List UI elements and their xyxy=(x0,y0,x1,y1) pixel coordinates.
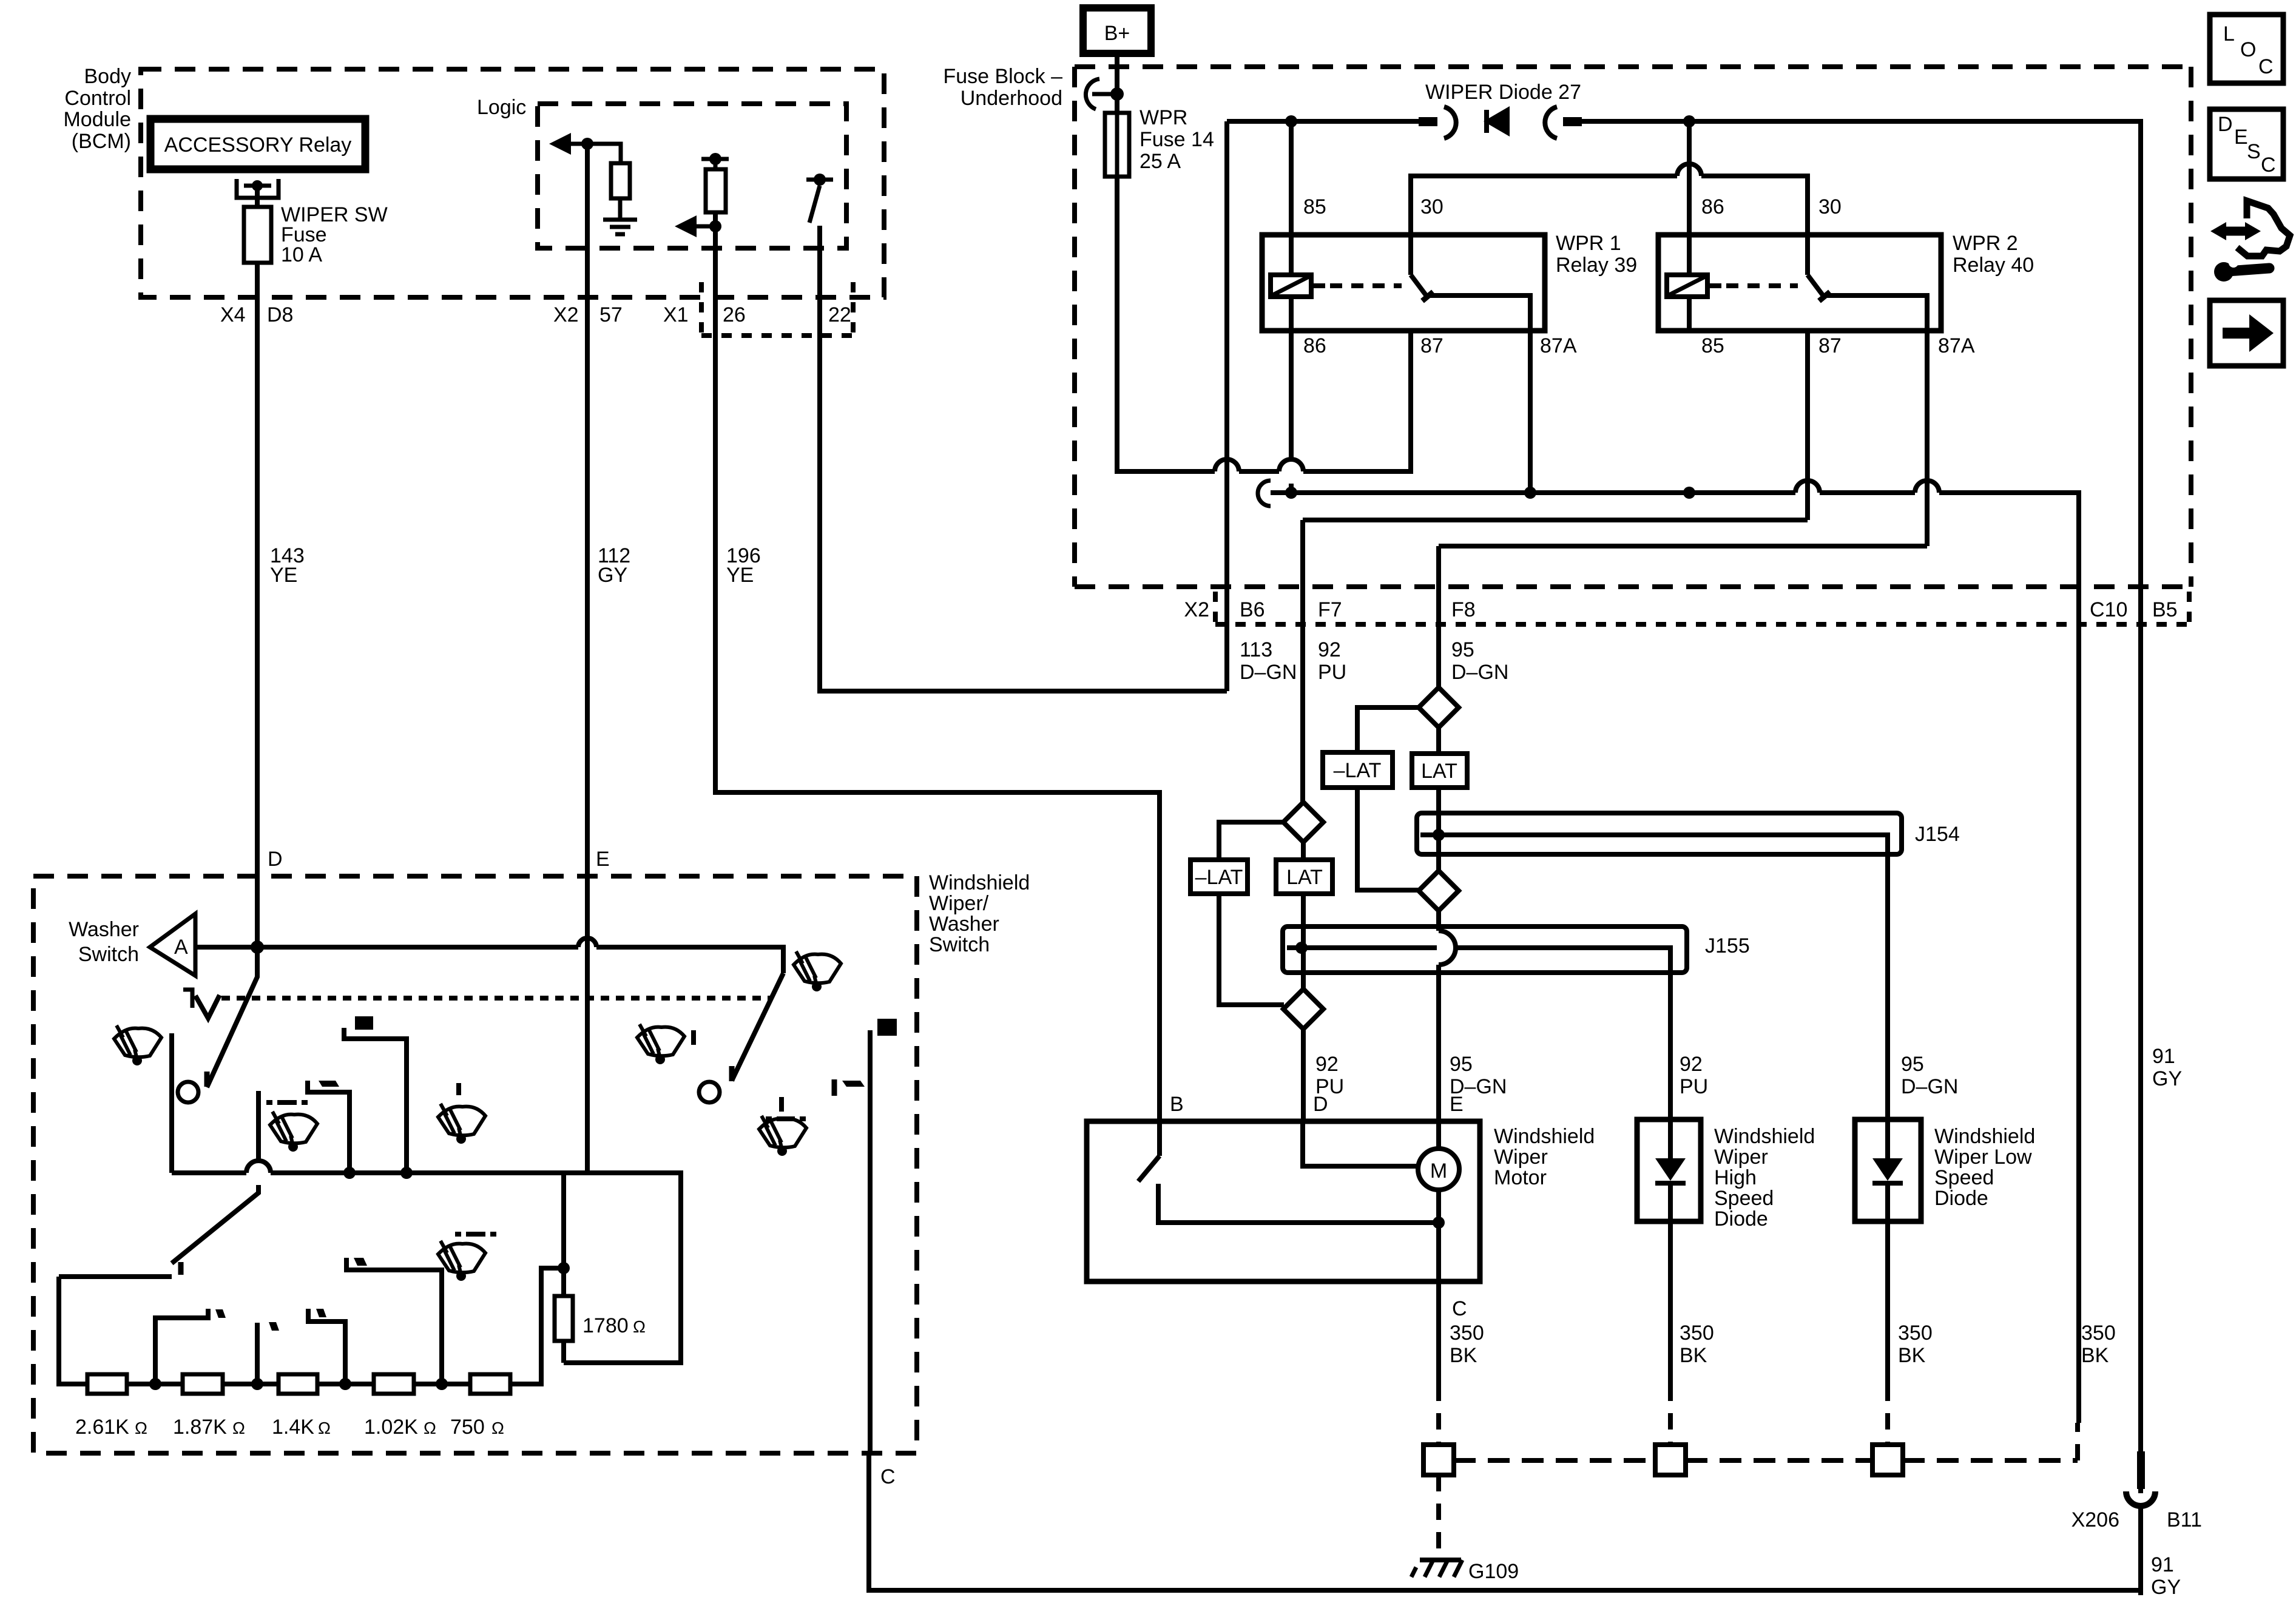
svg-text:PU: PU xyxy=(1318,661,1346,684)
svg-text:C: C xyxy=(880,1465,896,1488)
svg-text:30: 30 xyxy=(1818,195,1842,218)
svg-text:G109: G109 xyxy=(1468,1560,1519,1583)
svg-text:95: 95 xyxy=(1451,638,1474,661)
svg-text:1.02K: 1.02K xyxy=(364,1416,418,1439)
svg-text:95: 95 xyxy=(1450,1053,1473,1076)
svg-text:Switch: Switch xyxy=(929,933,990,956)
svg-text:Control: Control xyxy=(64,87,131,110)
svg-text:BK: BK xyxy=(1898,1344,1926,1367)
svg-text:92: 92 xyxy=(1315,1053,1339,1076)
svg-text:X4: X4 xyxy=(220,303,246,326)
svg-text:Washer: Washer xyxy=(69,918,139,941)
svg-text:LAT: LAT xyxy=(1421,760,1457,783)
svg-text:E: E xyxy=(2234,126,2248,149)
svg-text:Speed: Speed xyxy=(1934,1166,1994,1189)
svg-text:Underhood: Underhood xyxy=(961,87,1062,110)
svg-text:Ω: Ω xyxy=(135,1419,147,1437)
svg-text:BK: BK xyxy=(1680,1344,1707,1367)
svg-text:C: C xyxy=(2261,154,2276,177)
svg-text:91: 91 xyxy=(2151,1553,2174,1576)
svg-text:WPR 2: WPR 2 xyxy=(1953,232,2018,255)
svg-text:Motor: Motor xyxy=(1494,1166,1547,1189)
svg-text:B5: B5 xyxy=(2152,598,2178,621)
svg-text:350: 350 xyxy=(1680,1322,1714,1345)
svg-text:GY: GY xyxy=(2151,1576,2181,1599)
svg-text:Module: Module xyxy=(63,108,131,131)
svg-text:LAT: LAT xyxy=(1286,866,1323,889)
svg-text:87: 87 xyxy=(1420,334,1443,357)
svg-text:Windshield: Windshield xyxy=(1494,1125,1595,1148)
svg-text:GY: GY xyxy=(2152,1067,2182,1090)
svg-text:Washer: Washer xyxy=(929,913,999,936)
svg-text:87: 87 xyxy=(1818,334,1842,357)
svg-text:92: 92 xyxy=(1680,1053,1703,1076)
svg-text:D: D xyxy=(1313,1093,1328,1116)
svg-text:Fuse Block –: Fuse Block – xyxy=(943,65,1062,88)
svg-text:C10: C10 xyxy=(2090,598,2127,621)
svg-text:F8: F8 xyxy=(1451,598,1476,621)
svg-text:O: O xyxy=(2240,38,2256,61)
svg-text:X2: X2 xyxy=(553,303,579,326)
svg-text:ACCESSORY Relay: ACCESSORY Relay xyxy=(164,133,352,157)
svg-text:B+: B+ xyxy=(1104,22,1130,45)
svg-text:25 A: 25 A xyxy=(1140,150,1181,173)
svg-text:Diode: Diode xyxy=(1714,1207,1768,1230)
svg-text:Wiper/: Wiper/ xyxy=(929,892,989,915)
svg-text:BK: BK xyxy=(2081,1344,2109,1367)
svg-text:Wiper Low: Wiper Low xyxy=(1934,1146,2032,1169)
svg-text:C: C xyxy=(2258,55,2274,78)
svg-text:1.4K: 1.4K xyxy=(272,1416,314,1439)
svg-text:–LAT: –LAT xyxy=(1334,759,1382,782)
svg-text:91: 91 xyxy=(2152,1045,2175,1068)
svg-text:E: E xyxy=(1450,1093,1464,1116)
svg-text:113: 113 xyxy=(1240,638,1272,661)
svg-text:350: 350 xyxy=(1898,1322,1933,1345)
svg-text:1.87K: 1.87K xyxy=(173,1416,227,1439)
svg-text:D–GN: D–GN xyxy=(1240,661,1297,684)
svg-text:WPR 1: WPR 1 xyxy=(1556,232,1621,255)
svg-text:M: M xyxy=(1430,1160,1447,1183)
svg-text:F7: F7 xyxy=(1318,598,1342,621)
svg-text:Windshield: Windshield xyxy=(1934,1125,2035,1148)
svg-text:1780: 1780 xyxy=(582,1314,629,1337)
svg-text:J155: J155 xyxy=(1705,934,1750,957)
svg-text:Switch: Switch xyxy=(78,943,139,966)
svg-text:22: 22 xyxy=(828,303,851,326)
svg-text:350: 350 xyxy=(2081,1322,2116,1345)
svg-text:GY: GY xyxy=(598,564,627,587)
svg-text:X1: X1 xyxy=(663,303,689,326)
svg-text:57: 57 xyxy=(599,303,623,326)
svg-text:Logic: Logic xyxy=(477,96,526,119)
svg-text:C: C xyxy=(1452,1297,1467,1320)
svg-text:Ω: Ω xyxy=(424,1419,436,1437)
svg-text:YE: YE xyxy=(270,564,297,587)
svg-text:Wiper: Wiper xyxy=(1714,1146,1768,1169)
svg-text:WIPER Diode 27: WIPER Diode 27 xyxy=(1425,81,1581,104)
svg-text:High: High xyxy=(1714,1166,1757,1189)
svg-text:Ω: Ω xyxy=(318,1419,331,1437)
svg-text:Ω: Ω xyxy=(491,1419,504,1437)
svg-text:J154: J154 xyxy=(1915,823,1960,846)
svg-text:D–GN: D–GN xyxy=(1901,1075,1958,1098)
svg-text:Relay 40: Relay 40 xyxy=(1953,254,2034,277)
svg-text:Wiper: Wiper xyxy=(1494,1146,1548,1169)
svg-text:Ω: Ω xyxy=(232,1419,245,1437)
svg-text:B11: B11 xyxy=(2167,1508,2202,1531)
svg-text:92: 92 xyxy=(1318,638,1341,661)
svg-text:Windshield: Windshield xyxy=(929,871,1030,894)
svg-text:D: D xyxy=(2218,113,2233,136)
svg-text:86: 86 xyxy=(1303,334,1326,357)
svg-text:2.61K: 2.61K xyxy=(75,1416,129,1439)
svg-text:Fuse 14: Fuse 14 xyxy=(1140,128,1214,151)
svg-text:Ω: Ω xyxy=(633,1317,646,1336)
svg-text:D8: D8 xyxy=(267,303,293,326)
svg-text:BK: BK xyxy=(1450,1344,1477,1367)
svg-text:B: B xyxy=(1170,1093,1184,1116)
svg-text:B6: B6 xyxy=(1240,598,1265,621)
svg-text:D–GN: D–GN xyxy=(1451,661,1508,684)
svg-text:S: S xyxy=(2247,140,2261,163)
svg-text:D: D xyxy=(268,848,283,871)
svg-text:X206: X206 xyxy=(2071,1508,2119,1531)
svg-text:10 A: 10 A xyxy=(281,243,322,266)
svg-text:L: L xyxy=(2223,22,2235,46)
svg-text:30: 30 xyxy=(1420,195,1443,218)
svg-text:87A: 87A xyxy=(1540,334,1577,357)
svg-text:26: 26 xyxy=(723,303,746,326)
svg-text:Speed: Speed xyxy=(1714,1187,1774,1210)
svg-text:350: 350 xyxy=(1450,1322,1484,1345)
svg-text:86: 86 xyxy=(1701,195,1724,218)
svg-text:Body: Body xyxy=(84,65,132,88)
svg-text:A: A xyxy=(174,936,188,959)
svg-text:PU: PU xyxy=(1680,1075,1708,1098)
svg-text:95: 95 xyxy=(1901,1053,1924,1076)
svg-text:Diode: Diode xyxy=(1934,1187,1988,1210)
svg-text:Windshield: Windshield xyxy=(1714,1125,1815,1148)
svg-text:X2: X2 xyxy=(1184,598,1209,621)
svg-text:85: 85 xyxy=(1303,195,1326,218)
svg-text:E: E xyxy=(596,848,610,871)
svg-text:87A: 87A xyxy=(1938,334,1975,357)
svg-text:YE: YE xyxy=(726,564,754,587)
svg-text:85: 85 xyxy=(1701,334,1724,357)
svg-text:Relay 39: Relay 39 xyxy=(1556,254,1637,277)
svg-text:(BCM): (BCM) xyxy=(72,130,131,153)
svg-text:750: 750 xyxy=(450,1416,485,1439)
svg-text:WPR: WPR xyxy=(1140,106,1187,129)
svg-text:–LAT: –LAT xyxy=(1195,866,1243,889)
